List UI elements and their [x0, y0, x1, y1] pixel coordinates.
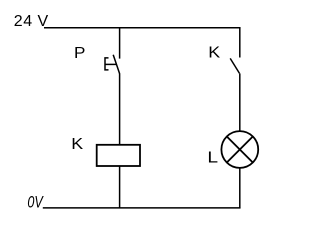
lamp L	[221, 131, 258, 168]
wire 24V top rail	[44, 27, 241, 29]
wire 0V bottom rail	[43, 207, 241, 209]
pushbutton P (normally-open, actuator bracket)	[105, 55, 120, 74]
wire from lamp L to 0V rail	[239, 168, 241, 208]
svg-text:K: K	[208, 44, 220, 61]
wire 24V rail corner down to contact K	[239, 28, 241, 58]
svg-text:24 V: 24 V	[14, 13, 49, 30]
wire from P bottom contact to coil K	[119, 73, 121, 144]
wire from 24V rail down to pushbutton P top contact	[119, 28, 121, 59]
svg-text:L: L	[207, 150, 218, 167]
relay coil K	[97, 145, 140, 166]
wire from coil K to 0V rail	[119, 166, 121, 208]
svg-text:P: P	[74, 45, 85, 62]
svg-text:K: K	[71, 136, 83, 153]
wire from contact K to lamp L	[239, 73, 241, 131]
switch contact K (normally-open)	[230, 58, 239, 73]
svg-text:0V: 0V	[27, 193, 44, 212]
